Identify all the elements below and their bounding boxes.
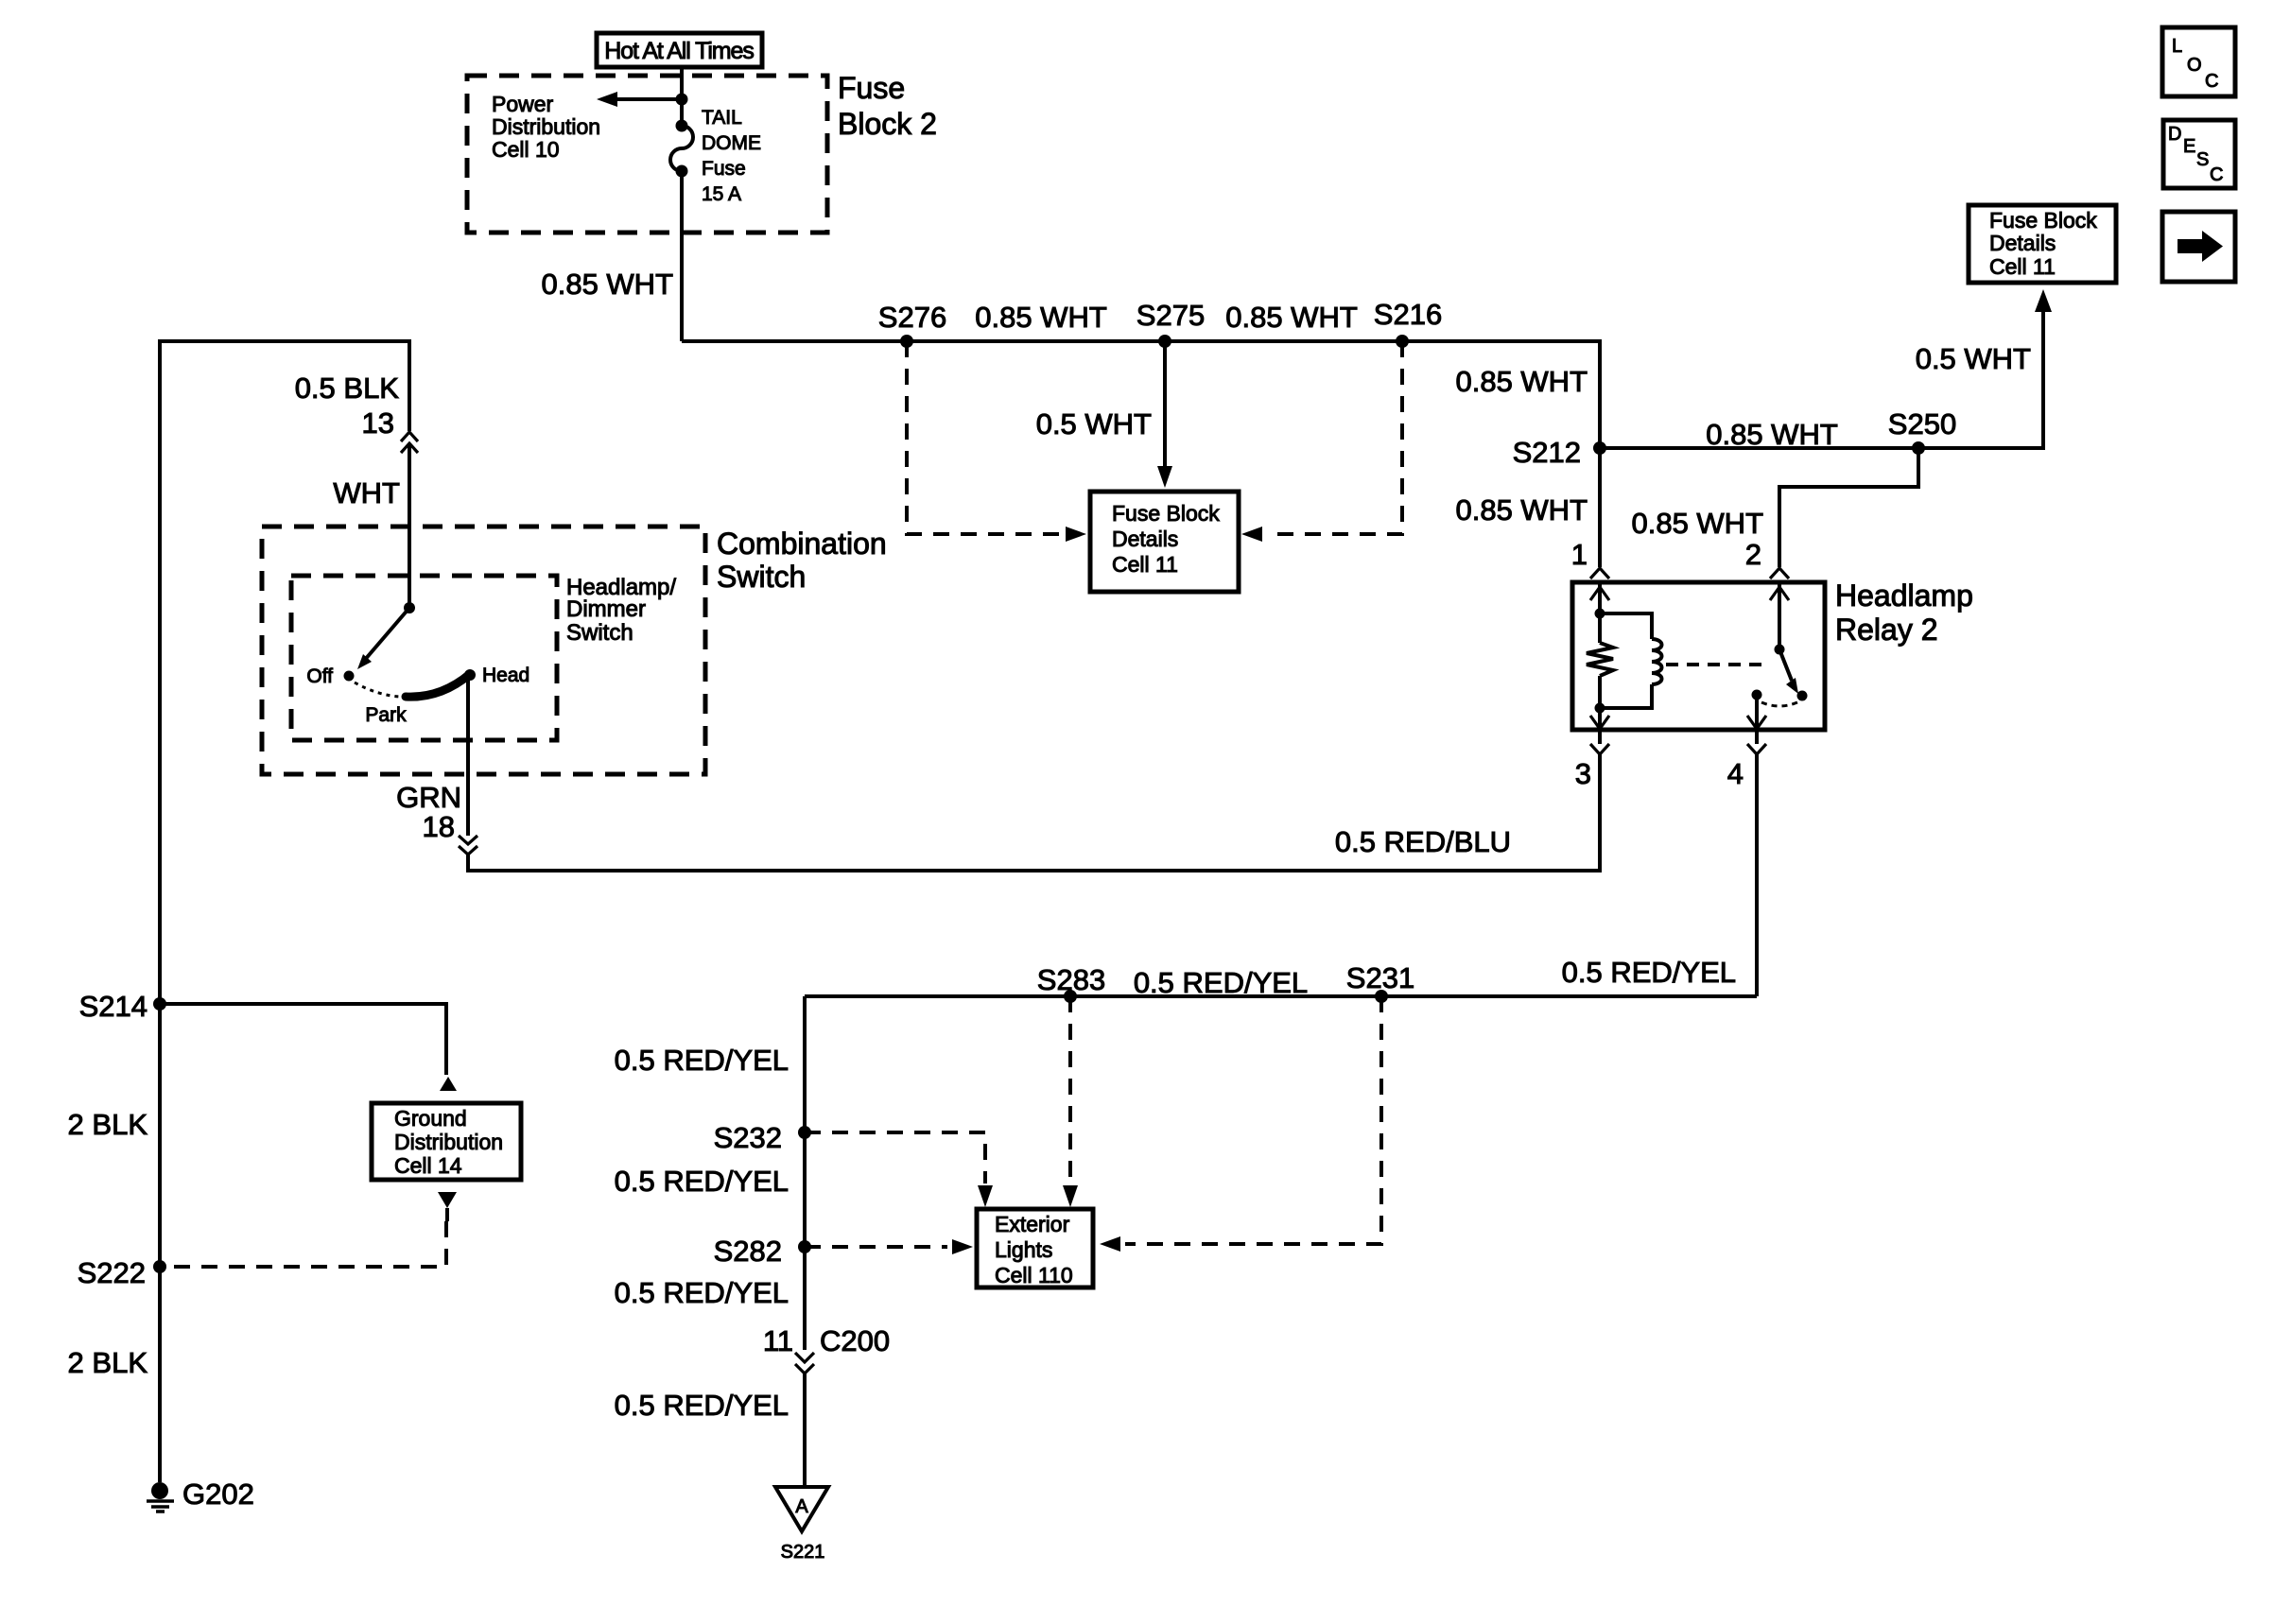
svg-text:Ground: Ground [394, 1106, 467, 1131]
svg-text:0.85 WHT: 0.85 WHT [1225, 301, 1358, 334]
svg-text:S231: S231 [1346, 961, 1414, 994]
svg-text:S216: S216 [1374, 298, 1442, 331]
svg-text:2 BLK: 2 BLK [68, 1108, 148, 1141]
svg-text:0.5 RED/BLU: 0.5 RED/BLU [1335, 825, 1511, 858]
svg-text:Cell 11: Cell 11 [1989, 254, 2056, 279]
svg-text:E: E [2183, 136, 2195, 157]
svg-text:4: 4 [1727, 757, 1744, 790]
svg-text:S221: S221 [781, 1542, 825, 1563]
svg-text:1: 1 [1571, 538, 1588, 571]
svg-text:GRN: GRN [396, 781, 461, 814]
svg-text:0.85 WHT: 0.85 WHT [541, 268, 673, 301]
svg-text:A: A [795, 1496, 808, 1517]
svg-text:Block 2: Block 2 [838, 107, 937, 141]
svg-text:Off: Off [306, 665, 333, 687]
svg-text:Distribution: Distribution [492, 114, 600, 139]
svg-text:S250: S250 [1888, 407, 1956, 441]
svg-text:S232: S232 [714, 1121, 782, 1154]
svg-text:0.5 RED/YEL: 0.5 RED/YEL [1562, 956, 1736, 989]
svg-text:Power: Power [492, 92, 554, 116]
svg-text:Switch: Switch [717, 560, 806, 594]
svg-text:0.85 WHT: 0.85 WHT [1631, 507, 1763, 540]
svg-text:Fuse: Fuse [838, 71, 905, 105]
svg-text:Distribution: Distribution [394, 1130, 503, 1154]
svg-text:L: L [2172, 36, 2182, 57]
svg-text:TAIL: TAIL [702, 107, 742, 129]
svg-text:G202: G202 [182, 1477, 254, 1511]
svg-text:0.85 WHT: 0.85 WHT [1706, 418, 1838, 451]
svg-text:0.5 WHT: 0.5 WHT [1916, 342, 2031, 375]
svg-text:S214: S214 [79, 990, 147, 1023]
svg-text:S276: S276 [878, 301, 946, 334]
svg-text:13: 13 [362, 406, 394, 440]
svg-text:Cell 10: Cell 10 [492, 137, 560, 162]
svg-text:Details: Details [1989, 231, 2056, 255]
svg-text:0.85 WHT: 0.85 WHT [975, 301, 1107, 334]
svg-text:2 BLK: 2 BLK [68, 1346, 148, 1379]
svg-text:S: S [2196, 149, 2209, 170]
svg-text:Dimmer: Dimmer [566, 596, 646, 622]
svg-text:Fuse Block: Fuse Block [1112, 501, 1220, 526]
svg-text:D: D [2168, 124, 2181, 145]
svg-text:Switch: Switch [566, 620, 633, 646]
svg-text:S212: S212 [1513, 436, 1581, 469]
svg-text:S275: S275 [1136, 299, 1205, 332]
svg-text:C: C [2205, 71, 2218, 92]
svg-text:0.5 BLK: 0.5 BLK [295, 371, 400, 405]
svg-text:11: 11 [763, 1324, 793, 1357]
svg-text:Headlamp: Headlamp [1835, 579, 1973, 613]
svg-text:0.5 RED/YEL: 0.5 RED/YEL [1134, 966, 1308, 999]
svg-text:Head: Head [482, 665, 529, 686]
svg-text:Relay 2: Relay 2 [1835, 613, 1938, 647]
svg-text:2: 2 [1745, 538, 1761, 571]
svg-text:Park: Park [365, 704, 407, 726]
svg-text:0.85 WHT: 0.85 WHT [1455, 365, 1588, 398]
svg-text:C200: C200 [820, 1324, 890, 1357]
svg-text:0.5 RED/YEL: 0.5 RED/YEL [615, 1389, 789, 1422]
svg-text:Cell 110: Cell 110 [995, 1263, 1073, 1287]
svg-text:Exterior: Exterior [995, 1212, 1070, 1236]
svg-text:Combination: Combination [717, 527, 887, 561]
svg-text:Cell 11: Cell 11 [1112, 552, 1178, 577]
svg-text:S283: S283 [1037, 963, 1105, 996]
svg-text:Lights: Lights [995, 1237, 1052, 1262]
svg-text:18: 18 [423, 810, 455, 843]
svg-text:0.5 RED/YEL: 0.5 RED/YEL [615, 1044, 789, 1077]
svg-text:0.5 WHT: 0.5 WHT [1036, 407, 1152, 441]
svg-text:DOME: DOME [702, 132, 761, 154]
svg-text:S282: S282 [714, 1235, 782, 1268]
svg-text:C: C [2210, 164, 2223, 185]
svg-text:0.5 RED/YEL: 0.5 RED/YEL [615, 1165, 789, 1198]
svg-text:15 A: 15 A [702, 183, 741, 205]
svg-text:Fuse: Fuse [702, 158, 746, 180]
svg-text:3: 3 [1575, 757, 1591, 790]
svg-text:Details: Details [1112, 527, 1178, 551]
svg-text:0.5 RED/YEL: 0.5 RED/YEL [615, 1276, 789, 1309]
svg-text:0.85 WHT: 0.85 WHT [1455, 493, 1588, 527]
svg-text:Hot At All Times: Hot At All Times [604, 38, 754, 64]
svg-text:S222: S222 [78, 1256, 146, 1289]
svg-text:Cell 14: Cell 14 [394, 1153, 462, 1178]
svg-text:WHT: WHT [333, 476, 400, 510]
svg-text:Fuse Block: Fuse Block [1989, 208, 2097, 233]
svg-text:O: O [2187, 55, 2202, 76]
